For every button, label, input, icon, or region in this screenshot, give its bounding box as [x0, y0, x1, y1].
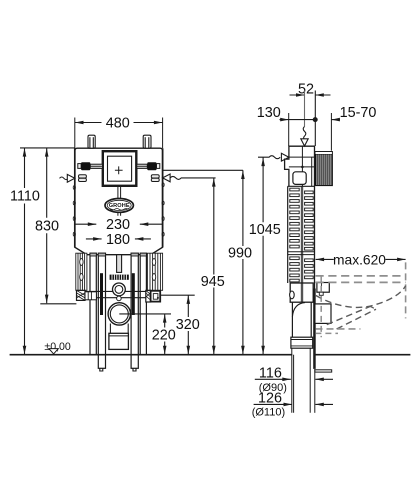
wall line thin continuation	[314, 369, 316, 413]
52 right line	[314, 91, 316, 147]
svg-text:15-70: 15-70	[340, 105, 377, 121]
side panel left (corrugated strip)	[76, 253, 87, 290]
WC bowl dashed right edge	[405, 262, 407, 318]
drain pipe below floor	[292, 348, 310, 413]
dim 830 line	[46, 148, 48, 303]
wall-cut squiggle arrow left of tank	[60, 177, 69, 180]
flush stem above logo	[118, 186, 121, 199]
bracket hatch box left	[77, 290, 86, 300]
WC bowl dashed underside arc	[316, 286, 406, 308]
leg rail A right	[140, 253, 146, 355]
leg dark bar left	[100, 273, 103, 315]
130 extension line	[288, 113, 290, 146]
990 reference line from window center	[163, 169, 243, 171]
svg-text:1045: 1045	[249, 222, 281, 238]
small circle below valve	[117, 296, 122, 301]
bracket box right	[151, 291, 161, 302]
bracket hatch box right	[146, 290, 151, 302]
frame top section outline	[285, 146, 315, 288]
frame bottom box	[290, 283, 313, 302]
leg rail B left	[98, 253, 105, 368]
inspection window inner	[108, 156, 132, 181]
ladder rail outline	[288, 186, 315, 283]
top bolt left	[88, 135, 95, 148]
tank edge bumps left	[73, 186, 75, 237]
leg foot left	[100, 368, 103, 371]
leg caps	[90, 253, 146, 256]
leg rail B right	[131, 253, 138, 368]
GROHE logo oval	[105, 199, 133, 213]
52 left line with squiggle arrow down to frame	[304, 91, 306, 127]
wall bracket bar	[85, 291, 146, 297]
dim max.620	[316, 258, 406, 260]
bracket connector left	[85, 292, 96, 300]
svg-text:180: 180	[106, 232, 130, 248]
WC bowl dashed outline top lines	[316, 276, 406, 283]
svg-text:830: 830	[35, 219, 59, 235]
clip left	[79, 175, 87, 182]
flush outlet circle	[108, 303, 130, 325]
wall line thick	[313, 289, 316, 369]
svg-text:±0,00: ±0,00	[44, 341, 71, 353]
svg-text:220: 220	[152, 327, 176, 343]
dim 990	[242, 170, 244, 354]
outlet housing	[110, 324, 128, 334]
flush elbow	[292, 302, 311, 337]
wall-cut squiggle arrow right of tank / 945 ref line	[163, 174, 171, 182]
WC outlet dashed vertical axis	[320, 276, 322, 337]
side window rounded square	[293, 172, 306, 185]
dim 180	[86, 238, 151, 240]
svg-text:1110: 1110	[10, 189, 40, 205]
water valve circle	[113, 283, 126, 296]
stem below logo	[118, 212, 121, 216]
knurled wall anchor knob	[315, 152, 332, 186]
ladder rungs	[290, 188, 313, 282]
side panel right (corrugated strip)	[147, 253, 162, 290]
svg-text:990: 990	[228, 246, 252, 262]
svg-text:130: 130	[257, 105, 281, 121]
inspection window outer	[103, 151, 137, 186]
dim 230	[75, 223, 163, 225]
320 reference line from right bracket	[160, 294, 195, 296]
WC outlet dashed diagonals	[327, 306, 371, 324]
outlet connector lower box	[315, 304, 331, 324]
toilet fixing bracket	[315, 370, 332, 372]
top reference line	[20, 147, 75, 149]
cistern tank outline	[75, 148, 163, 255]
pipe flange	[291, 337, 313, 348]
window center cross	[115, 166, 123, 174]
left bracket reference line	[40, 303, 76, 305]
svg-text:480: 480	[106, 116, 130, 132]
dim 480 extension lines	[75, 118, 163, 149]
svg-text:(Ø110): (Ø110)	[252, 406, 285, 418]
15-70 extension line	[330, 113, 332, 151]
leg dark bar right	[132, 273, 135, 315]
junction dot	[301, 166, 304, 169]
220 reference line from outlet center	[119, 313, 171, 315]
top bolt right	[143, 135, 151, 148]
side rod right	[137, 164, 148, 168]
hatched bar	[110, 275, 129, 280]
frame interior lines top	[289, 146, 315, 186]
floor line	[10, 354, 411, 356]
flush pipe stem center	[117, 255, 122, 273]
leg rail A left	[90, 253, 96, 355]
dim 480 line	[75, 122, 163, 124]
tank edge bumps right	[162, 183, 164, 236]
svg-text:230: 230	[106, 217, 130, 233]
side rod left (cap, head, shaft)	[78, 164, 81, 169]
clip right	[151, 175, 159, 182]
pivot ellipse	[290, 291, 295, 299]
WC outlet dashed horizontals	[316, 328, 361, 330]
svg-text:320: 320	[176, 317, 200, 333]
1045 squiggle reference arrow to frame	[258, 156, 280, 159]
dim 320	[187, 295, 189, 354]
svg-text:945: 945	[201, 274, 225, 290]
dim 945	[213, 178, 215, 355]
dim 1110 line	[24, 148, 26, 355]
dim 220	[164, 314, 166, 355]
svg-text:max.620: max.620	[333, 252, 386, 267]
outlet connector upper box	[317, 283, 329, 293]
dim 1045	[262, 157, 264, 354]
leg foot right	[133, 368, 136, 371]
rail splice joint	[288, 252, 315, 255]
